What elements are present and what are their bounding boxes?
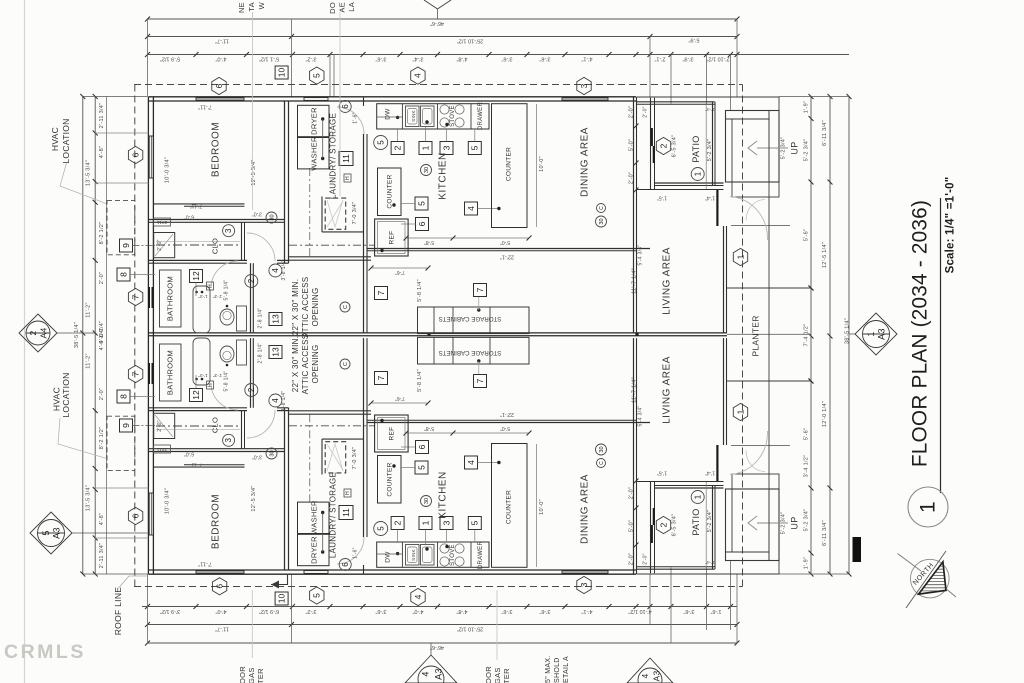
svg-text:12: 12	[191, 271, 201, 281]
kitchen appliance counter row (bottom unit)	[377, 542, 489, 567]
svg-text:WASHER: WASHER	[309, 500, 318, 535]
kitchen callout row (top unit)	[391, 142, 404, 155]
svg-text:4'-8": 4'-8"	[456, 56, 467, 62]
svg-text:OPENING: OPENING	[311, 345, 320, 384]
svg-text:7'-6": 7'-6"	[395, 395, 405, 401]
attic closet walls (bottom unit)	[321, 439, 323, 475]
north arrow	[911, 559, 950, 598]
tiny H box hall (bottom unit)	[207, 381, 214, 389]
left dimension chain 3	[105, 97, 107, 575]
svg-text:7'-11": 7'-11"	[198, 104, 212, 110]
svg-text:BEDROOM: BEDROOM	[211, 122, 222, 177]
svg-text:5'-0": 5'-0"	[500, 425, 510, 431]
callout box 13 (top unit)	[269, 313, 282, 326]
laundry tiny H box (bottom unit)	[344, 489, 351, 497]
svg-text:TER: TER	[502, 668, 511, 683]
svg-text:7: 7	[130, 371, 140, 376]
BATHROOM label box (bottom unit)	[160, 344, 182, 401]
laundry dash-dot lines (top unit)	[289, 244, 375, 246]
svg-text:5'-6": 5'-6"	[803, 428, 809, 440]
svg-text:12'-5 3/4": 12'-5 3/4"	[251, 159, 257, 185]
svg-text:2'-0": 2'-0"	[628, 172, 634, 184]
svg-text:2'-11 3/4": 2'-11 3/4"	[99, 543, 105, 569]
svg-text:3'-0": 3'-0"	[252, 454, 262, 460]
svg-text:3'-0": 3'-0"	[252, 211, 262, 217]
svg-text:46'-6": 46'-6"	[430, 20, 444, 26]
svg-text:2'-0": 2'-0"	[628, 487, 634, 499]
tiny H box hall (top unit)	[207, 282, 214, 290]
svg-text:1: 1	[420, 145, 430, 150]
svg-text:DRAWER: DRAWER	[478, 541, 484, 570]
svg-text:LAUNDRY/ STORAGE: LAUNDRY/ STORAGE	[329, 472, 338, 558]
entry door swing arc (top unit)	[730, 197, 768, 241]
kitchen appliance counter row (top unit)	[377, 104, 489, 129]
bedroom right wall (bottom unit)	[284, 408, 286, 570]
svg-text:3: 3	[441, 145, 451, 150]
svg-text:5'-6": 5'-6"	[803, 229, 809, 241]
storage cabinets (top unit)	[418, 307, 530, 334]
closet bottom wall (top unit)	[148, 259, 247, 261]
counter callout 6 (top unit)	[416, 218, 429, 231]
hall circled 30 (top unit)	[266, 212, 277, 223]
svg-text:UP: UP	[789, 141, 799, 154]
svg-text:1'-9": 1'-9"	[803, 101, 809, 113]
svg-text:BEDROOM: BEDROOM	[211, 494, 222, 549]
svg-text:5'-2 3/4": 5'-2 3/4"	[803, 139, 809, 162]
svg-text:3'-4": 3'-4"	[412, 56, 423, 62]
left wall window extension lines (bottom unit)	[95, 537, 149, 539]
svg-text:3: 3	[224, 438, 233, 443]
svg-text:4: 4	[271, 268, 280, 273]
callout box 7 storage (bottom unit)	[474, 375, 487, 388]
svg-text:1'-3": 1'-3"	[198, 294, 208, 299]
svg-text:11'-7 1/4": 11'-7 1/4"	[631, 377, 637, 403]
kitchen counter box (bottom unit)	[378, 456, 402, 504]
svg-text:FLOOR PLAN (2034 - 2036): FLOOR PLAN (2034 - 2036)	[909, 200, 932, 467]
counter callout 5 (top unit)	[415, 197, 428, 210]
top dimension chain line 1 (46'-6")	[148, 18, 738, 20]
page fold line	[24, 0, 26, 683]
section marker 1/A3 right center	[855, 313, 897, 355]
left extent line at top of plan	[83, 96, 148, 98]
svg-text:PATIO: PATIO	[691, 508, 701, 535]
svg-text:DINING AREA: DINING AREA	[580, 474, 591, 544]
party wall (center)	[148, 332, 727, 334]
laundry window (front wall) (top unit)	[304, 98, 328, 101]
svg-text:2: 2	[392, 145, 402, 150]
svg-text:8: 8	[118, 394, 128, 399]
svg-text:3'-2": 3'-2"	[305, 56, 316, 62]
svg-text:11: 11	[341, 154, 351, 163]
svg-text:ATTIC ACCESS: ATTIC ACCESS	[301, 334, 310, 395]
bottom 4/A3 marker kitchen	[405, 655, 457, 683]
svg-text:2'-8 1/4": 2'-8 1/4"	[257, 343, 263, 364]
svg-text:11'-7": 11'-7"	[215, 38, 229, 44]
section marker 5/A3 left	[30, 512, 72, 554]
hexagon 7 left top	[128, 288, 142, 305]
svg-text:5: 5	[470, 520, 480, 525]
bottom extension verticals	[147, 574, 149, 643]
hexagon 5 top	[310, 67, 324, 84]
dining circled 30 (bottom unit)	[596, 444, 607, 455]
svg-text:5'-8": 5'-8"	[424, 239, 434, 245]
attic access dashed box (bottom unit)	[325, 442, 346, 473]
patio outline (bottom unit)	[637, 568, 715, 570]
top dimension chain line 2	[148, 36, 738, 38]
svg-text:7'-11": 7'-11"	[198, 561, 212, 567]
top extension verticals	[147, 19, 149, 97]
refrigerator (top unit)	[375, 219, 409, 256]
svg-text:TER: TER	[256, 668, 265, 683]
sliding door panels (bottom unit)	[651, 525, 653, 543]
svg-text:KITCHEN: KITCHEN	[438, 471, 449, 518]
tall counter (top unit)	[492, 104, 528, 228]
svg-text:38'-5 1/4": 38'-5 1/4"	[844, 318, 850, 344]
svg-text:5: 5	[312, 593, 322, 598]
roof line dashed outline	[134, 84, 743, 86]
svg-text:30: 30	[424, 167, 430, 173]
svg-text:11'-2": 11'-2"	[85, 302, 91, 317]
svg-text:5'-0": 5'-0"	[500, 239, 510, 245]
svg-text:5: 5	[376, 526, 385, 531]
left wall window extension lines (top unit)	[95, 132, 149, 134]
svg-text:COUNTER: COUNTER	[506, 490, 513, 524]
closet top wall (bottom unit)	[148, 451, 284, 453]
svg-text:10'-0 3/4": 10'-0 3/4"	[164, 488, 170, 514]
svg-text:KITCHEN: KITCHEN	[438, 152, 449, 199]
svg-text:2'-11 3/4": 2'-11 3/4"	[99, 103, 105, 129]
kitchen lower dim (top unit)	[371, 267, 428, 269]
svg-text:UP: UP	[789, 516, 799, 529]
attic access dashed box (top unit)	[325, 198, 346, 229]
bedroom window (left wall) (top unit)	[149, 136, 153, 178]
svg-text:W: W	[257, 1, 266, 9]
svg-text:5'-8": 5'-8"	[424, 425, 434, 431]
svg-text:22" X 30" MIN.: 22" X 30" MIN.	[291, 279, 300, 336]
kitchen window (front wall) (top unit)	[562, 98, 608, 101]
svg-text:BATHROOM: BATHROOM	[165, 276, 174, 321]
kitchen sink (top unit)	[406, 106, 420, 127]
svg-text:4: 4	[640, 673, 650, 678]
svg-text:LA: LA	[347, 2, 356, 12]
svg-text:6: 6	[417, 444, 427, 449]
svg-text:4'-8": 4'-8"	[99, 513, 105, 525]
svg-text:6: 6	[130, 513, 140, 518]
svg-text:6'-11 3/4": 6'-11 3/4"	[822, 120, 828, 146]
svg-text:REF: REF	[389, 231, 396, 245]
svg-text:CRMLS: CRMLS	[4, 641, 86, 663]
svg-text:3'-6": 3'-6"	[539, 608, 550, 614]
svg-text:1'-4": 1'-4"	[705, 560, 715, 565]
svg-text:10'-0": 10'-0"	[539, 499, 545, 515]
closet upper partition (top unit)	[153, 203, 244, 205]
svg-text:2: 2	[392, 520, 402, 525]
svg-text:6: 6	[341, 562, 350, 567]
svg-text:5: 5	[416, 465, 426, 470]
svg-text:11'-2": 11'-2"	[85, 353, 91, 368]
svg-text:7'-11": 7'-11"	[190, 203, 203, 209]
hexagon 6 bottom wall	[212, 578, 226, 595]
hexagon 3 bottom	[577, 576, 591, 593]
svg-text:BATHROOM: BATHROOM	[165, 350, 174, 395]
svg-text:3: 3	[441, 520, 451, 525]
svg-text:SINK: SINK	[411, 110, 416, 122]
black revision bar	[853, 537, 862, 562]
svg-text:5'-8 1/4": 5'-8 1/4"	[223, 280, 229, 301]
svg-text:5'-2 3/4": 5'-2 3/4"	[707, 510, 713, 533]
svg-text:CLO: CLO	[210, 417, 219, 433]
svg-text:OOR: OOR	[484, 666, 493, 683]
exterior front wall (top unit)	[148, 96, 636, 98]
svg-text:A4: A4	[38, 328, 48, 339]
callout box 11 (top unit)	[339, 152, 353, 166]
svg-text:3: 3	[579, 582, 589, 587]
svg-text:6: 6	[130, 152, 140, 157]
svg-text:4'-8": 4'-8"	[99, 146, 105, 158]
svg-text:1: 1	[420, 520, 430, 525]
svg-text:1'-3": 1'-3"	[198, 373, 208, 378]
svg-text:DO: DO	[328, 2, 337, 14]
svg-text:3'-6": 3'-6"	[539, 56, 550, 62]
bottom dimension chain line 3	[142, 606, 737, 608]
svg-text:2: 2	[658, 522, 668, 527]
washer dryer stack (top unit)	[298, 105, 330, 136]
patio outline (top unit)	[637, 101, 715, 103]
bedroom right wall (top unit)	[284, 101, 286, 263]
svg-text:4: 4	[271, 398, 280, 403]
bath window bars (top unit)	[148, 287, 150, 308]
svg-text:LOCATION: LOCATION	[61, 118, 71, 163]
HVAC dashed box top	[107, 201, 135, 255]
svg-text:5'-8 1/4": 5'-8 1/4"	[223, 371, 229, 392]
dining right wall (bottom unit)	[633, 338, 635, 574]
kitchen sink (bottom unit)	[406, 545, 420, 566]
svg-text:12: 12	[191, 390, 201, 400]
svg-text:4'-0": 4'-0"	[215, 608, 226, 614]
svg-text:9: 9	[121, 243, 131, 248]
door threshold detail arrow	[271, 574, 288, 585]
counter callout 5 (bottom unit)	[415, 461, 428, 474]
svg-text:5: 5	[312, 73, 322, 78]
svg-text:3'-6": 3'-6"	[375, 608, 386, 614]
UP stair arrow (top unit)	[757, 147, 788, 149]
svg-text:7'-6": 7'-6"	[395, 269, 405, 275]
title underline	[940, 198, 942, 493]
svg-text:C: C	[599, 461, 605, 465]
svg-text:3'-8 1/4": 3'-8 1/4"	[281, 260, 287, 281]
svg-text:COUNTER: COUNTER	[387, 174, 394, 208]
svg-text:2'-0": 2'-0"	[642, 553, 648, 564]
hexagon 1 planter bottom	[733, 403, 747, 420]
svg-text:DRAWER: DRAWER	[478, 102, 484, 131]
svg-text:7: 7	[130, 294, 140, 299]
top dimension chain line 3	[148, 54, 850, 56]
svg-text:7: 7	[376, 375, 386, 380]
svg-text:1'-5": 1'-5"	[657, 470, 667, 476]
svg-text:1'-3": 1'-3"	[213, 294, 223, 299]
svg-text:5'-2 3/4": 5'-2 3/4"	[803, 509, 809, 532]
svg-text:4: 4	[466, 206, 476, 211]
dining right wall (top unit)	[633, 97, 635, 333]
svg-text:CLO: CLO	[210, 238, 219, 254]
svg-text:DRYER: DRYER	[309, 107, 318, 135]
svg-text:4: 4	[413, 73, 423, 78]
bathroom hall wall (top unit)	[250, 263, 252, 333]
hexagon 6 top wall	[212, 77, 226, 94]
kitchen counter box (top unit)	[378, 168, 402, 216]
callout box 13 (bottom unit)	[269, 346, 282, 359]
svg-text:1'-4": 1'-4"	[705, 107, 715, 112]
bottom dimension chain line 2	[148, 624, 738, 626]
hexagon 5 bottom	[310, 587, 324, 604]
svg-text:2'-8 1/4": 2'-8 1/4"	[257, 308, 263, 329]
box 8 left top	[117, 268, 130, 281]
hvac equipment box (bottom unit)	[154, 413, 175, 438]
svg-text:10'-0": 10'-0"	[539, 156, 545, 172]
kitchen-dining hall wall (bottom unit)	[367, 422, 650, 424]
bedroom window (front wall) (bottom unit)	[196, 571, 244, 574]
patio slider wall (bottom unit)	[650, 481, 652, 573]
hall circled C (top unit)	[340, 302, 350, 312]
svg-text:A3: A3	[51, 527, 61, 539]
svg-text:2'-0": 2'-0"	[99, 388, 105, 400]
kitchen circle 5 (bottom unit)	[374, 522, 388, 536]
laundry door arc (top unit)	[337, 107, 364, 134]
planter walls	[727, 287, 811, 289]
entry deck and stairs (bottom unit)	[726, 489, 780, 561]
svg-text:1'-5": 1'-5"	[657, 195, 667, 201]
svg-text:ROOF LINE: ROOF LINE	[113, 587, 123, 636]
svg-text:5: 5	[470, 145, 480, 150]
svg-text:4'-1": 4'-1"	[581, 608, 592, 614]
right dimension chain 3	[848, 97, 850, 575]
patio hex 2 (bottom unit)	[656, 516, 670, 533]
laundry dash-dot lines (bottom unit)	[289, 425, 375, 427]
svg-text:1'-4": 1'-4"	[705, 470, 715, 476]
svg-text:2: 2	[28, 330, 38, 335]
svg-text:COUNTER: COUNTER	[387, 462, 394, 496]
hexagon 3 top	[577, 77, 591, 94]
svg-text:NE: NE	[237, 2, 246, 13]
closet circle 3 (bottom unit)	[223, 434, 235, 446]
svg-text:5'-9 1/2": 5'-9 1/2"	[160, 56, 180, 62]
svg-text:3'-9": 3'-9"	[682, 56, 693, 62]
living area right wall (bottom unit)	[723, 338, 725, 445]
hall circle 4 (top unit)	[269, 264, 282, 277]
svg-text:6'-11 3/4": 6'-11 3/4"	[822, 520, 828, 546]
svg-text:DW: DW	[385, 108, 392, 120]
svg-text:PATIO: PATIO	[691, 135, 701, 162]
bedroom door arc (top unit)	[247, 233, 275, 261]
svg-text:3'-8 1/4": 3'-8 1/4"	[281, 391, 287, 412]
callout box 7 hall (top unit)	[375, 287, 388, 300]
svg-text:Scale: 1/4" =1'-0": Scale: 1/4" =1'-0"	[945, 177, 957, 274]
callout box 7 hall (bottom unit)	[375, 372, 388, 385]
closet header 2x11 label (top unit)	[154, 218, 171, 226]
closet circle 3 (top unit)	[223, 225, 235, 237]
svg-text:WASHER: WASHER	[309, 136, 318, 171]
svg-text:46'-6": 46'-6"	[430, 644, 444, 650]
UP stair arrow (bottom unit)	[757, 522, 788, 524]
closet shelf dashed (bottom unit)	[156, 425, 240, 427]
svg-text:TA: TA	[247, 2, 256, 12]
svg-text:C: C	[343, 305, 349, 309]
callout box 12 (bottom unit)	[190, 389, 203, 402]
svg-text:9: 9	[121, 423, 131, 428]
svg-text:GAS: GAS	[247, 667, 256, 683]
patio circle 1 (top unit)	[691, 168, 704, 181]
svg-text:3'-4 1/2": 3'-4 1/2"	[803, 455, 809, 478]
hexagon 7 left bottom	[128, 365, 142, 382]
svg-text:A3: A3	[651, 671, 661, 682]
attic closet walls (top unit)	[321, 197, 323, 233]
hexagon 6 left bottom	[128, 507, 142, 524]
svg-text:2'-0": 2'-0"	[99, 272, 105, 284]
svg-text:5'-1 1/2": 5'-1 1/2"	[259, 56, 279, 62]
svg-text:2'-0": 2'-0"	[642, 106, 648, 117]
patio hex 2 (top unit)	[656, 137, 670, 154]
svg-text:1'-6": 1'-6"	[352, 547, 358, 558]
svg-text:H: H	[207, 383, 213, 387]
kitchen left wall (top unit)	[363, 134, 365, 333]
svg-text:1: 1	[693, 494, 702, 499]
svg-text:5'-4 3/4": 5'-4 3/4"	[637, 245, 643, 266]
svg-text:STOVE: STOVE	[450, 105, 456, 127]
svg-text:3: 3	[579, 83, 589, 88]
kitchen lower dim (bottom unit)	[371, 402, 428, 404]
living area top wall (bottom unit)	[637, 481, 724, 483]
svg-text:4'-10 1/2": 4'-10 1/2"	[628, 608, 651, 614]
svg-text:2'-0": 2'-0"	[157, 420, 163, 431]
svg-text:2'-0": 2'-0"	[628, 553, 634, 565]
closet upper partition (bottom unit)	[153, 466, 244, 468]
svg-text:13'-5 3/4": 13'-5 3/4"	[85, 160, 91, 186]
svg-text:38'-5 1/4": 38'-5 1/4"	[74, 322, 80, 348]
svg-text:8'-2 1/2": 8'-2 1/2"	[99, 427, 105, 450]
svg-text:22" X 30" MIN.: 22" X 30" MIN.	[291, 336, 300, 393]
top 4/A3 diamond partial	[424, 0, 451, 9]
svg-text:4'-0": 4'-0"	[215, 56, 226, 62]
closet header 2x11 label (bottom unit)	[154, 445, 171, 453]
svg-text:SHOLD: SHOLD	[554, 657, 561, 683]
svg-text:10: 10	[276, 594, 286, 604]
right dimension chain 2	[829, 97, 831, 575]
svg-text:5: 5	[416, 201, 426, 206]
deck top edge line	[637, 96, 779, 98]
dining circled 30 (top unit)	[596, 216, 607, 227]
svg-text:11: 11	[341, 508, 351, 517]
left exterior wall	[147, 97, 149, 574]
box 8 left bottom	[117, 390, 130, 403]
hall circle 2 (top unit)	[245, 275, 258, 288]
right dimension chain 1	[810, 97, 812, 575]
bedroom window (front wall) (top unit)	[196, 98, 244, 101]
hall circle 2 (bottom unit)	[245, 384, 258, 397]
bath window bars (bottom unit)	[148, 363, 150, 384]
laundry tiny H box (top unit)	[344, 174, 351, 182]
svg-text:C: C	[343, 362, 349, 366]
svg-text:H: H	[345, 176, 351, 180]
bath door arc (top unit)	[211, 261, 238, 288]
patio circle 1 (bottom unit)	[691, 491, 704, 504]
svg-text:1'-6": 1'-6"	[352, 112, 358, 123]
bedroom window (left wall) (bottom unit)	[149, 493, 153, 535]
svg-text:SINK: SINK	[411, 549, 416, 561]
hall circle 4 (bottom unit)	[269, 394, 282, 407]
svg-text:5: 5	[376, 140, 385, 145]
svg-text:30: 30	[599, 218, 605, 224]
kitchen callout 4 (bottom unit)	[465, 456, 478, 469]
